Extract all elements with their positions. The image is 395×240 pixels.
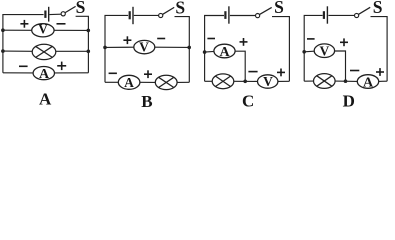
svg-text:S: S — [76, 0, 86, 17]
plus sign right of ammeter (circuit B) — [144, 70, 152, 78]
junction dot left, voltmeter branch (circuit B) — [103, 46, 107, 50]
ammeter branch wire from left rail (circuit C) — [205, 50, 214, 53]
svg-text:S: S — [274, 0, 284, 17]
circuit B left rail and top wire — [105, 15, 128, 47]
circuit A left rail and top-left wire — [3, 15, 44, 31]
svg-text:A: A — [219, 45, 230, 60]
wire ammeter to lamp (circuit B) — [140, 81, 155, 83]
junction dot at bottom node (circuit D) — [344, 79, 348, 83]
bottom wire left (circuit B) — [105, 81, 118, 83]
wire voltmeter right then down to junction (circuit D) — [335, 51, 346, 81]
svg-text:A: A — [39, 67, 50, 82]
svg-text:D: D — [343, 92, 355, 109]
bottom wire left (circuit D) — [304, 80, 313, 82]
switch pivot circle (circuit D) — [355, 13, 359, 17]
left rail lower segment (circuit B) — [104, 47, 106, 82]
svg-text:V: V — [139, 39, 149, 54]
junction dot on left rail, voltmeter branch (circuit D) — [302, 50, 306, 54]
ammeter M2 ellipse (circuit B) — [118, 75, 140, 89]
junction dot right, voltmeter branch (circuit A) — [87, 29, 91, 33]
plus sign left of voltmeter (circuit B) — [123, 36, 131, 44]
minus sign left of ammeter (circuit A) — [19, 65, 28, 67]
plus sign right of voltmeter (circuit D) — [340, 38, 348, 46]
lamp branch left wire (circuit A) — [3, 50, 32, 52]
battery tall plate (circuit C) — [228, 6, 230, 23]
lamp L3 ellipse with cross (circuit C) — [212, 74, 234, 89]
svg-text:A: A — [124, 75, 134, 90]
svg-text:B: B — [141, 92, 152, 108]
minus sign right of voltmeter (circuit A) — [57, 23, 66, 25]
voltmeter U2 ellipse (circuit B) — [134, 40, 155, 53]
left rail lower segment (circuit D) — [303, 52, 305, 81]
wire battery to switch pivot (circuit B) — [134, 14, 159, 16]
junction dot at bottom node (circuit C) — [243, 80, 247, 84]
wire battery to switch pivot (circuit A) — [50, 13, 62, 15]
ammeter M4 ellipse (circuit D) — [357, 75, 378, 89]
voltmeter branch right wire (circuit A) — [54, 29, 88, 31]
bottom wire right (circuit A) — [55, 72, 89, 74]
left rail lower segment (circuit C) — [204, 52, 206, 81]
wire ammeter right then down to junction (circuit C) — [235, 51, 245, 81]
lamp L4 ellipse with cross (circuit D) — [314, 74, 336, 89]
minus sign left of ammeter (circuit D) — [350, 70, 359, 72]
svg-text:A: A — [39, 89, 52, 108]
junction dot right, lamp branch (circuit A) — [87, 50, 91, 54]
bottom wire right (circuit B) — [177, 81, 189, 83]
switch blade open (circuit B) — [163, 7, 175, 14]
minus sign left of voltmeter (circuit D) — [307, 38, 315, 40]
wire battery to switch pivot (circuit C) — [230, 15, 256, 17]
minus sign left of ammeter (circuit B) — [109, 72, 117, 74]
svg-text:C: C — [242, 91, 254, 108]
plus sign right of ammeter (circuit D) — [376, 68, 384, 76]
svg-text:S: S — [373, 0, 383, 17]
right rail lower segment (circuit B) — [188, 47, 190, 82]
ammeter M1 ellipse (circuit A) — [33, 67, 54, 80]
wire switch to top-right corner, right rail (circuit D) — [371, 17, 388, 82]
plus sign right of voltmeter (circuit C) — [277, 69, 285, 77]
battery tall plate (circuit B) — [132, 7, 134, 24]
voltmeter branch wire from left rail (circuit D) — [304, 50, 314, 53]
battery short plate (circuit A) — [44, 11, 46, 18]
minus sign left of ammeter (circuit C) — [207, 38, 215, 40]
voltmeter U4 ellipse (circuit D) — [314, 44, 334, 58]
wire switch to top-right corner, right rail (circuit C) — [272, 17, 289, 82]
junction dot on left rail, ammeter branch (circuit C) — [203, 50, 207, 54]
bottom wire left (circuit A) — [3, 72, 33, 74]
battery tall plate (circuit A) — [48, 7, 50, 22]
battery short plate (circuit D) — [323, 11, 325, 19]
junction dot right, voltmeter branch (circuit B) — [187, 46, 191, 50]
voltmeter branch left wire (circuit A) — [3, 29, 32, 31]
battery tall plate (circuit D) — [326, 6, 328, 23]
minus sign right of voltmeter (circuit B) — [157, 38, 165, 40]
ammeter M3 ellipse (circuit C) — [214, 44, 235, 58]
plus sign right of ammeter (circuit A) — [57, 62, 66, 71]
lamp L2 ellipse with cross (circuit B) — [155, 75, 177, 89]
switch pivot circle (circuit A) — [61, 12, 65, 16]
wire lamp to voltmeter through junction (circuit C) — [234, 80, 258, 82]
lamp branch right wire (circuit A) — [56, 50, 89, 52]
lamp L1 ellipse with cross (circuit A) — [32, 44, 56, 59]
left rail lower segment (circuit A) — [2, 30, 4, 73]
wire switch to top-right corner, right rail (circuit B) — [175, 17, 190, 48]
voltmeter U3 ellipse (circuit C) — [258, 75, 278, 88]
minus sign left of voltmeter (circuit C) — [248, 71, 257, 73]
wire lamp to ammeter through junction (circuit D) — [335, 80, 357, 82]
svg-text:V: V — [38, 22, 48, 37]
battery short plate (circuit B) — [129, 11, 131, 19]
bottom wire left (circuit C) — [205, 80, 213, 82]
voltmeter U1 ellipse (circuit A) — [32, 24, 54, 37]
junction dot left, voltmeter branch (circuit A) — [1, 28, 5, 32]
circuit C left rail and top wire — [205, 16, 224, 53]
plus sign right of ammeter (circuit C) — [240, 38, 248, 46]
svg-text:V: V — [263, 74, 273, 89]
bottom wire right (circuit D) — [379, 80, 387, 82]
plus sign left of voltmeter (circuit A) — [20, 20, 28, 28]
circuit D left rail and top wire — [304, 15, 322, 51]
junction dot left, lamp branch (circuit A) — [1, 49, 5, 53]
svg-text:S: S — [175, 0, 185, 18]
switch blade open (circuit A) — [65, 6, 75, 12]
wire battery to switch pivot (circuit D) — [328, 14, 354, 16]
voltmeter branch right wire (circuit B) — [155, 46, 190, 48]
svg-text:V: V — [320, 43, 330, 58]
switch blade open (circuit C) — [260, 7, 272, 14]
wire switch to top-right corner, right rail (circuit A) — [76, 16, 89, 73]
switch pivot circle (circuit B) — [159, 13, 163, 17]
bottom wire right (circuit C) — [278, 80, 290, 82]
battery short plate (circuit C) — [224, 11, 226, 19]
svg-text:A: A — [363, 76, 374, 91]
voltmeter branch left wire (circuit B) — [105, 46, 134, 48]
switch blade open (circuit D) — [359, 7, 371, 14]
switch pivot circle (circuit C) — [256, 14, 260, 18]
